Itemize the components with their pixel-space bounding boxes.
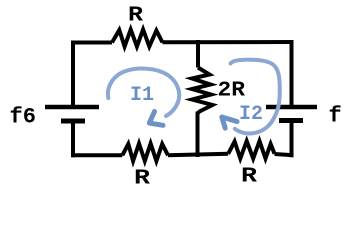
loop current I1 arrow (clockwise arc) [108, 69, 179, 126]
svg-text:f6: f6 [10, 105, 36, 130]
battery V2 short plate (negative) [279, 118, 303, 123]
battery V1 long plate (positive) [45, 105, 99, 110]
resistor R1 (top, value R) zigzag [112, 30, 163, 47]
wire: bottom-right segment (resistor R4 to bottom-right corner) [275, 154, 294, 155]
battery V1 short plate (negative) [61, 119, 85, 124]
wire: middle branch lower stem (resistor R2 down to bottom wire junction) [196, 112, 200, 158]
svg-text:R: R [241, 166, 257, 189]
battery V2 long plate (positive) [266, 105, 317, 110]
wire: right branch upper (top-right corner down to battery V2 + plate) [290, 40, 294, 105]
svg-text:f: f [329, 104, 342, 129]
wire: middle branch upper stem (top wire junction down to resistor R2) [196, 40, 200, 68]
resistor R2 (middle, value 2R) vertical zigzag [192, 68, 213, 114]
resistor R4 (bottom-right, value R) zigzag [228, 141, 274, 159]
wire: bottom-middle segment (resistor R3 across middle-branch junction to resistor R4) [168, 154, 228, 156]
wire: bottom-left segment (corner to resistor R3) [71, 153, 122, 157]
loop current I2 arrow (clockwise arc) [222, 60, 280, 134]
svg-text:R: R [128, 5, 143, 28]
svg-text:I2: I2 [239, 103, 263, 126]
svg-text:R: R [134, 168, 150, 191]
wire: top-left segment (corner to resistor R1) [71, 41, 112, 45]
wire: top-right segment (resistor R1 across middle-branch junction to top-right corner) [163, 40, 294, 44]
svg-text:2R: 2R [218, 80, 246, 103]
svg-text:I1: I1 [130, 84, 154, 107]
wire: left branch upper (top-left corner down to battery V1 + plate) [71, 41, 75, 107]
wire: left branch lower (battery V1 - plate down to bottom-left corner) [71, 122, 75, 157]
wire: right branch lower (battery V2 - plate down to bottom-right corner) [290, 122, 294, 157]
resistor R3 (bottom-left, value R) zigzag [122, 144, 168, 162]
